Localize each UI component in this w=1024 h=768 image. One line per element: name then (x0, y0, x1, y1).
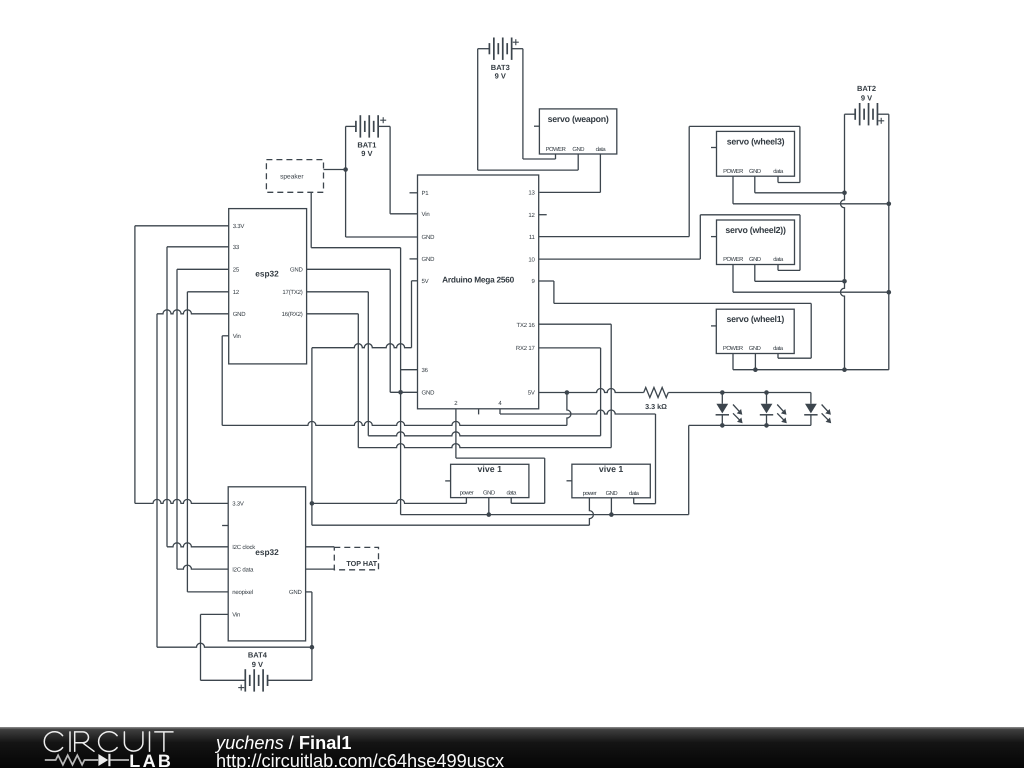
svg-text:data: data (506, 490, 517, 497)
svg-text:GND: GND (289, 589, 303, 596)
svg-text:25: 25 (233, 267, 240, 274)
svg-text:Vin: Vin (233, 333, 241, 340)
svg-text:GND: GND (749, 345, 761, 352)
svg-text:data: data (773, 256, 784, 263)
svg-text:9 V: 9 V (361, 149, 372, 158)
svg-text:POWER: POWER (723, 345, 743, 352)
svg-text:BAT4: BAT4 (248, 651, 268, 660)
svg-text:GND: GND (483, 490, 495, 497)
svg-text:16(RX2): 16(RX2) (282, 311, 303, 318)
svg-text:servo (wheel1): servo (wheel1) (726, 314, 784, 324)
svg-text:Vin: Vin (232, 612, 240, 619)
svg-text:POWER: POWER (546, 146, 566, 153)
svg-text:GND: GND (606, 490, 618, 497)
svg-text:I2C data: I2C data (232, 566, 254, 573)
svg-text:17(TX2): 17(TX2) (282, 289, 302, 296)
svg-text:speaker: speaker (280, 173, 304, 180)
svg-text:3.3V: 3.3V (232, 501, 244, 508)
svg-text:power: power (460, 491, 474, 497)
svg-text:GND: GND (422, 234, 436, 241)
svg-text:3.3V: 3.3V (233, 223, 245, 230)
svg-text:servo (wheel3): servo (wheel3) (727, 136, 785, 146)
svg-text:POWER: POWER (723, 256, 743, 263)
svg-text:vive 1: vive 1 (599, 464, 624, 474)
svg-text:esp32: esp32 (255, 269, 279, 279)
svg-text:GND: GND (749, 168, 761, 175)
svg-text:3.3 kΩ: 3.3 kΩ (645, 402, 667, 411)
svg-text:servo (wheel2)): servo (wheel2)) (725, 225, 786, 235)
svg-text:RX2 17: RX2 17 (516, 345, 536, 352)
svg-text:TX2 16: TX2 16 (517, 322, 536, 329)
svg-text:servo (weapon): servo (weapon) (548, 114, 609, 124)
svg-text:GND: GND (233, 311, 247, 318)
svg-text:36: 36 (422, 367, 429, 374)
svg-text:P1: P1 (422, 190, 430, 197)
svg-text:GND: GND (290, 267, 304, 274)
svg-text:5V: 5V (422, 278, 429, 285)
svg-text:TOP HAT: TOP HAT (346, 559, 377, 568)
svg-text:BAT2: BAT2 (857, 84, 876, 93)
svg-text:33: 33 (233, 244, 240, 251)
svg-text:10: 10 (528, 256, 535, 263)
svg-text:12: 12 (528, 212, 535, 219)
svg-text:power: power (583, 491, 597, 497)
svg-text:13: 13 (528, 190, 535, 197)
svg-text:data: data (773, 168, 784, 175)
svg-text:data: data (629, 490, 640, 497)
svg-text:neopixel: neopixel (232, 589, 253, 596)
svg-text:data: data (773, 345, 784, 352)
svg-text:I2C clock: I2C clock (232, 544, 256, 551)
svg-text:11: 11 (529, 234, 536, 241)
svg-text:Vin: Vin (422, 211, 430, 218)
svg-text:GND: GND (422, 256, 436, 263)
svg-text:9 V: 9 V (861, 94, 872, 103)
svg-text:LAB: LAB (129, 751, 173, 768)
svg-text:GND: GND (572, 146, 584, 153)
svg-text:Arduino Mega 2560: Arduino Mega 2560 (442, 275, 514, 285)
svg-text:data: data (596, 146, 607, 153)
svg-text:POWER: POWER (723, 168, 743, 175)
svg-text:12: 12 (233, 289, 240, 296)
svg-text:9 V: 9 V (252, 660, 263, 669)
svg-text:9 V: 9 V (495, 71, 506, 80)
svg-text:5V: 5V (528, 390, 535, 397)
svg-text:esp32: esp32 (255, 547, 279, 557)
svg-text:vive 1: vive 1 (478, 464, 503, 474)
svg-text:GND: GND (422, 390, 436, 397)
svg-text:GND: GND (749, 256, 761, 263)
